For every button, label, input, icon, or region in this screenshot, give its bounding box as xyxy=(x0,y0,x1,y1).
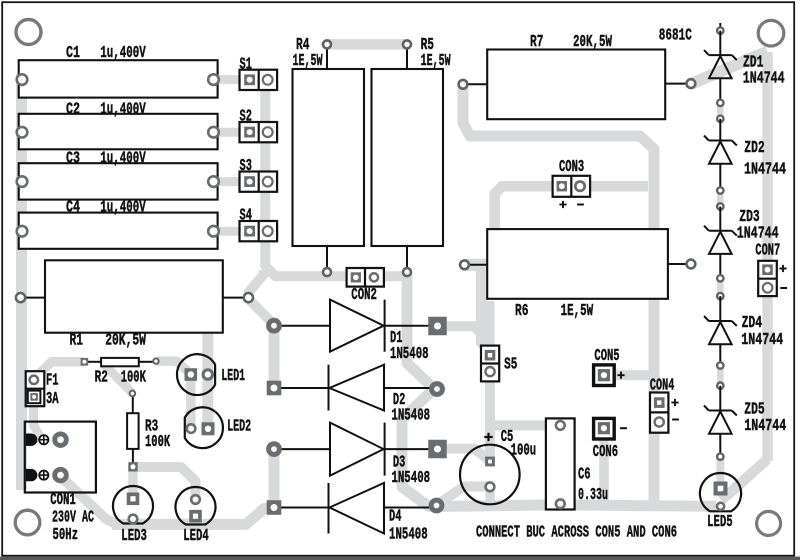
LED LED4 xyxy=(176,487,216,546)
svg-text:S1: S1 xyxy=(240,56,252,75)
svg-text:1N4744: 1N4744 xyxy=(744,161,786,180)
wire net C4-S4 xyxy=(213,227,250,236)
wire CON5 stub xyxy=(614,370,654,380)
connector CON1 terminal block xyxy=(25,422,96,493)
svg-text:1E,5W: 1E,5W xyxy=(421,52,451,71)
svg-text:230V AC: 230V AC xyxy=(52,509,94,528)
resistor R4 with pads xyxy=(293,36,365,276)
svg-text:S4: S4 xyxy=(240,207,252,226)
svg-text:S3: S3 xyxy=(240,157,252,176)
svg-text:LED3: LED3 xyxy=(121,527,147,546)
wire CON6 stub to bus xyxy=(599,436,609,506)
wire R3 bottom to LED3 xyxy=(128,467,138,500)
svg-text:1N4744: 1N4744 xyxy=(744,417,786,436)
svg-text:50Hz: 50Hz xyxy=(53,526,79,545)
svg-text:C3: C3 xyxy=(66,150,80,169)
wire D3 anode to D4 anode column xyxy=(269,449,280,507)
switch S5 xyxy=(481,346,517,382)
svg-text:1u,400V: 1u,400V xyxy=(100,101,146,120)
wire CON1 to bottom bus xyxy=(60,476,116,524)
svg-text:LED2: LED2 xyxy=(227,418,251,437)
svg-text:D4: D4 xyxy=(389,508,401,527)
wire R2 left to F1 xyxy=(34,362,85,380)
wire R1 through LED1 to LED2 right column xyxy=(202,331,213,429)
svg-text:R7: R7 xyxy=(530,33,543,52)
svg-text:1N5408: 1N5408 xyxy=(391,407,430,426)
svg-text:8681C: 8681C xyxy=(659,27,692,46)
wire ZD2-ZD3 stub xyxy=(717,191,724,206)
wire R5 bottom to D2 cathode pad xyxy=(407,272,436,388)
resistor R2 with pads xyxy=(81,358,159,388)
capacitor C2 with pads and value label xyxy=(17,101,219,150)
svg-text:3A: 3A xyxy=(46,390,59,409)
svg-text:ZD2: ZD2 xyxy=(744,139,764,158)
wire branch to R1 right pad xyxy=(248,270,264,298)
wire ZD3-ZD4 stub xyxy=(717,279,724,296)
wire C5 negative to bus xyxy=(485,488,495,507)
label 230V AC xyxy=(52,509,94,528)
switch S4 xyxy=(240,207,278,242)
capacitor C1 with pads and value label xyxy=(17,44,219,98)
svg-text:F1: F1 xyxy=(46,371,59,390)
diode D1 xyxy=(269,300,447,365)
connector CON7 xyxy=(755,242,787,297)
resistor R7 with pads xyxy=(459,33,696,119)
wire R2 net to R3 top xyxy=(103,364,132,394)
label connect instruction xyxy=(476,524,677,543)
resistor R6 with pads xyxy=(460,229,695,321)
diode D4 xyxy=(267,483,442,545)
svg-text:C4: C4 xyxy=(66,199,80,218)
svg-text:CON7: CON7 xyxy=(755,242,780,261)
svg-text:1N5408: 1N5408 xyxy=(391,469,430,488)
wire D3 cathode to C5 plus xyxy=(446,449,489,460)
wire bottom left bus to D4 anode xyxy=(112,508,272,525)
svg-text:CON6: CON6 xyxy=(593,443,618,462)
svg-text:C1: C1 xyxy=(66,44,80,63)
mounting hole bottom-left xyxy=(15,510,40,535)
svg-text:100K: 100K xyxy=(121,369,147,388)
svg-text:C6: C6 xyxy=(578,466,591,485)
svg-text:1E,5W: 1E,5W xyxy=(293,52,323,71)
wire R6 left stub xyxy=(465,259,494,271)
wire net C2-S2 xyxy=(213,128,250,137)
LED LED3 xyxy=(113,486,153,546)
svg-text:R1: R1 xyxy=(70,332,83,351)
svg-text:100u: 100u xyxy=(511,441,537,460)
svg-text:20K,5W: 20K,5W xyxy=(573,33,613,52)
resistor R1 with pads xyxy=(16,260,253,350)
capacitor C4 with pads and value label xyxy=(17,199,219,249)
wire ZD5 to LED5 stub xyxy=(716,458,724,483)
wire bottom right bus D4 to LED5 xyxy=(438,505,716,507)
svg-text:CON2: CON2 xyxy=(351,286,377,305)
wire R4-R5 top net xyxy=(327,39,407,50)
wire R7 left pad to CON3 column xyxy=(463,85,654,505)
svg-text:1E,5W: 1E,5W xyxy=(561,302,594,321)
connector CON3 xyxy=(553,158,591,208)
wire D4 pad to C5 negative xyxy=(438,487,490,505)
svg-text:CON3: CON3 xyxy=(559,158,584,177)
wire CON3 row to R6 left xyxy=(490,186,648,265)
svg-text:LED1: LED1 xyxy=(221,367,245,386)
LED LED1 xyxy=(177,354,245,395)
zener diode ZD2 xyxy=(704,119,786,210)
mounting hole top-left xyxy=(16,20,41,45)
svg-text:C2: C2 xyxy=(66,101,80,120)
svg-text:1N4744: 1N4744 xyxy=(741,331,783,350)
zener diode ZD3 xyxy=(704,207,779,300)
wire net C1-S1 xyxy=(214,75,250,84)
label 50Hz xyxy=(53,526,79,545)
resistor R3 with pads xyxy=(127,391,171,472)
resistor R5 with pads xyxy=(372,36,452,276)
wire R6 bottom stub to S5 xyxy=(486,301,495,350)
svg-text:20K,5W: 20K,5W xyxy=(105,332,146,351)
mounting hole top-right xyxy=(758,20,784,46)
wire right edge down to LED5 xyxy=(721,459,768,500)
label 8681C xyxy=(659,27,692,46)
svg-text:1u,400V: 1u,400V xyxy=(100,44,146,63)
wire right edge vertical xyxy=(762,52,773,461)
wire R3 bottom to LED4 xyxy=(135,467,196,499)
diode D3 xyxy=(269,423,447,488)
wire ZD1-ZD2 stub xyxy=(717,103,724,119)
svg-text:LED5: LED5 xyxy=(707,513,733,532)
wire net C3-S3 xyxy=(213,177,250,186)
svg-text:R6: R6 xyxy=(515,302,528,321)
switch S2 xyxy=(240,108,278,143)
wire D1 anode to D2 anode column xyxy=(269,326,280,388)
wire ZD4-ZD5 stub xyxy=(717,366,724,385)
diode D2 xyxy=(267,365,443,426)
switch S3 xyxy=(240,157,278,192)
wire D1 cathode to S5 C5 column xyxy=(440,326,490,461)
LED LED5 xyxy=(700,473,741,532)
svg-text:CON1: CON1 xyxy=(50,491,76,510)
wire R2 right to LED1 xyxy=(157,361,191,374)
node ZD chain top pad xyxy=(717,27,723,33)
wire left vertical bus C1-C4 to R1 and CON1 xyxy=(16,74,27,490)
wire F1 bottom stub into CON1 xyxy=(34,397,43,439)
svg-text:S2: S2 xyxy=(240,108,252,127)
capacitor C3 with pads and value label xyxy=(17,150,219,200)
svg-text:1u,400V: 1u,400V xyxy=(100,150,146,169)
zener diode ZD5 xyxy=(704,386,786,460)
capacitor C5 xyxy=(460,428,536,505)
switch S1 xyxy=(240,56,278,90)
wire R6 left down to D1 junction xyxy=(476,266,486,341)
svg-text:1N5408: 1N5408 xyxy=(389,526,428,545)
fuse F1 xyxy=(26,371,59,409)
capacitor C6 xyxy=(546,418,608,509)
svg-text:0.33u: 0.33u xyxy=(578,486,608,505)
wire D2 pad down to D4 pad xyxy=(402,390,436,507)
wire S1-S4 right column to CON2 row xyxy=(265,80,407,276)
svg-text:S5: S5 xyxy=(504,356,517,375)
wire LED1 to LED2 left column xyxy=(186,375,196,429)
zener diode ZD1 xyxy=(704,31,785,122)
svg-text:R2: R2 xyxy=(95,369,108,388)
svg-text:CONNECT BUC ACROSS CON5 AND CO: CONNECT BUC ACROSS CON5 AND CON6 xyxy=(476,524,677,543)
wire S5 to C6 top xyxy=(490,420,560,430)
svg-text:1N5408: 1N5408 xyxy=(390,345,429,364)
wire ZD chain top lead xyxy=(719,23,721,30)
label CON1 xyxy=(50,491,76,510)
connector CON4 xyxy=(650,376,679,432)
wire R7 right pad to right edge net xyxy=(691,52,768,84)
zener diode ZD4 xyxy=(704,296,783,389)
connector CON6 xyxy=(593,418,627,462)
svg-text:CON5: CON5 xyxy=(594,347,619,366)
svg-text:CON4: CON4 xyxy=(650,376,674,395)
connector CON2 xyxy=(347,268,384,305)
mounting hole bottom-right xyxy=(757,511,781,535)
connector CON5 xyxy=(594,347,625,386)
svg-text:1N4744: 1N4744 xyxy=(743,70,785,89)
svg-text:100K: 100K xyxy=(145,433,171,452)
svg-text:LED4: LED4 xyxy=(183,527,209,546)
wire R1 right pad to D1 anode xyxy=(248,299,274,325)
svg-text:1u,400V: 1u,400V xyxy=(100,199,146,218)
LED LED2 xyxy=(185,407,251,448)
